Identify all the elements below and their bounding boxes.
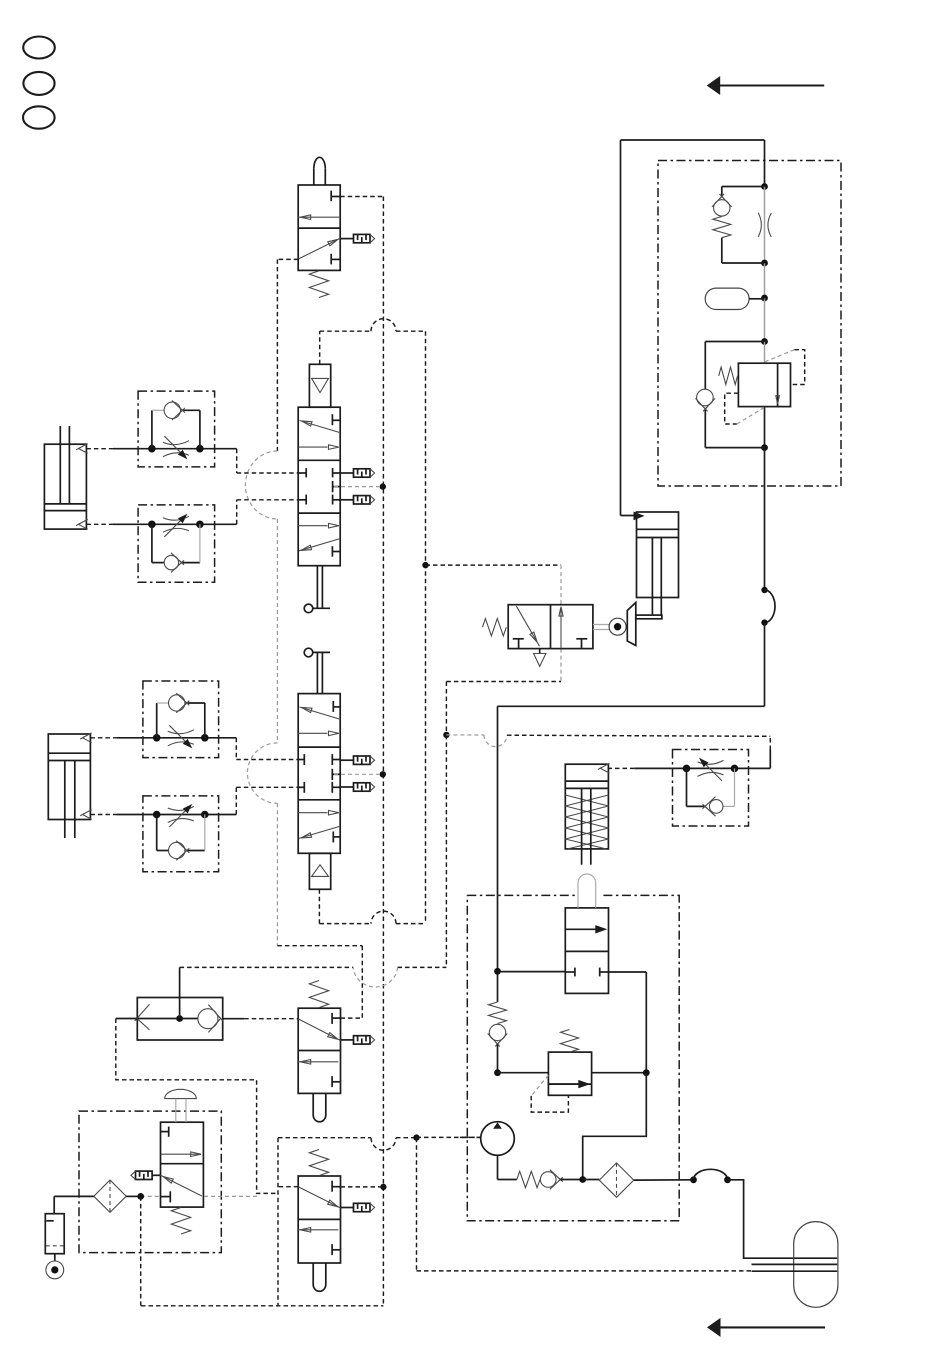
wire main x764 seg6	[764, 407, 766, 448]
valve V1 muffler	[340, 234, 374, 242]
valve V4 body	[508, 605, 593, 649]
flow control D node in	[153, 811, 161, 819]
wire regulator out	[592, 1072, 647, 1074]
wire cylA cap dashed	[86, 523, 113, 525]
wire y967 left	[180, 966, 354, 968]
shuttle valve ball	[198, 1009, 218, 1029]
flow control C line	[117, 737, 236, 739]
U2 box2 left port T 4	[298, 468, 306, 477]
wire V3b box top edge	[278, 1137, 371, 1139]
U3 box1 path B	[298, 731, 339, 736]
valve V1 return spring	[309, 271, 328, 298]
regulator V6 arrow	[548, 1080, 590, 1088]
orifice symbol	[758, 213, 771, 237]
wire V5 right	[609, 972, 647, 1073]
flow control E check seat	[703, 797, 716, 817]
wire shuttle right	[223, 1018, 245, 1020]
wire x277 upper	[276, 259, 278, 451]
valve V3b spring	[309, 1150, 328, 1176]
valve V5 body	[565, 908, 608, 994]
U2 centre port wire	[334, 486, 380, 488]
U3 box3 path B	[299, 827, 339, 839]
flow control E node out	[731, 765, 739, 773]
wire V1 port2 to net	[340, 196, 383, 198]
U2 box2 right T a	[333, 468, 341, 477]
cylinder A body	[44, 444, 86, 529]
filter F2	[94, 1180, 126, 1212]
wire y565 to roller valve	[426, 564, 562, 566]
wire y736 right	[507, 735, 770, 736]
cylinder C body	[637, 512, 679, 598]
U2 pilot triangle	[312, 378, 329, 392]
check valve K3 ball	[697, 389, 714, 406]
node V8 supply	[137, 1193, 144, 1200]
wire filter in	[583, 1179, 600, 1181]
valve V3b lower arrow	[298, 1228, 338, 1233]
wire x446 upper	[445, 682, 447, 735]
intake check seat	[550, 1170, 563, 1190]
wire main x764 seg7	[764, 448, 766, 590]
flow control A check seat	[172, 401, 185, 421]
wire V3b port2 net	[341, 1186, 384, 1188]
flow control B enclosure	[138, 505, 215, 582]
wire shuttle left net	[116, 1019, 278, 1194]
wire supply left drop	[621, 140, 638, 516]
shuttle valve line	[137, 1018, 198, 1020]
valve V8 spring	[171, 1208, 190, 1235]
node main 3	[761, 295, 768, 302]
wire V3b box left edge	[277, 1138, 279, 1306]
node bottom pilot	[413, 1134, 419, 1140]
valve V5 shutoff T right	[600, 968, 609, 977]
wire hop arc at 5/3-2 ports	[247, 743, 277, 803]
wire right drop	[583, 1073, 647, 1180]
cylinder D body	[565, 764, 608, 849]
wire filter to node	[126, 1195, 141, 1197]
U2 lever stem	[317, 566, 322, 609]
check valve K4 spring	[489, 1002, 507, 1024]
U3 pilot wire	[318, 889, 320, 923]
tank symbol	[45, 1214, 64, 1254]
drain connect	[54, 1254, 56, 1261]
wire y1137 hop	[371, 1138, 396, 1151]
valve V8 mushroom head	[165, 1089, 197, 1098]
flow control B check seat	[171, 553, 184, 573]
accumulator stub	[749, 298, 764, 300]
wire hop arc at 5/3-1 ports	[245, 451, 277, 519]
cylinder B port cap	[80, 810, 92, 820]
receiver line 2	[752, 1263, 838, 1265]
U2 box3 blocked T	[332, 546, 340, 557]
regulator V6 pilot	[531, 1075, 568, 1112]
wire y923 hop	[371, 911, 396, 924]
flow control C node in	[153, 734, 161, 742]
wire y1271 dashed	[417, 1270, 752, 1272]
wire main x764 seg3	[764, 263, 766, 298]
cylinder C port arrow	[634, 512, 645, 521]
check valve K4 ball	[489, 1024, 505, 1040]
flow control A branch	[152, 410, 200, 448]
cylinder B body	[48, 734, 90, 820]
check valve K1 spring	[713, 217, 731, 238]
node 5/3-1 centre port	[380, 483, 386, 489]
wire y736 hop	[484, 735, 507, 747]
valve V1 port 3 blocked T	[331, 254, 340, 265]
U3 lever bar	[313, 651, 330, 653]
node V3b port2	[380, 1184, 386, 1190]
wire main x764 seg1	[764, 140, 766, 187]
wire V1 port3 left	[277, 258, 298, 260]
valve V4 stem	[593, 625, 610, 630]
flow control D check circle	[169, 842, 185, 858]
filter F1	[599, 1163, 634, 1197]
connector ellipse 1	[23, 37, 55, 59]
flow control D throttle	[168, 804, 194, 827]
U3 box3 blocked T	[333, 832, 340, 843]
valve V8 diag	[161, 1175, 202, 1196]
cylinder C rod	[652, 538, 661, 616]
U3 box2 right T a	[332, 754, 340, 765]
wire filter left	[54, 1196, 94, 1213]
flow control D check seat	[176, 841, 189, 861]
flow control B throttle	[163, 514, 189, 537]
valve V4 box1 T	[513, 639, 524, 649]
node main 1	[761, 183, 768, 190]
node main 7	[761, 619, 767, 625]
wire main hop arc	[765, 590, 776, 623]
flow control B line	[113, 523, 237, 525]
wire y736 gray	[446, 734, 484, 736]
wire check to node	[497, 1044, 499, 1073]
valve V1 flow arrow upper	[298, 215, 340, 220]
U3 muffler 5	[340, 756, 374, 764]
regulator V6 body	[548, 1052, 591, 1095]
wire to filter	[560, 1179, 582, 1181]
U3 lever stem	[317, 652, 322, 693]
U2 box2 right T c	[333, 495, 341, 505]
receiver line 3	[752, 1270, 838, 1272]
5/3 valve U3 body	[298, 694, 340, 854]
valve V4 exhaust triangle	[534, 654, 546, 667]
wire to regulator	[498, 1072, 549, 1074]
flow control B node in	[148, 521, 156, 529]
flow control D branch	[157, 815, 205, 851]
wire x416 down	[416, 1138, 418, 1271]
node intake hop b	[724, 1176, 731, 1183]
wire x561 lower gray	[560, 649, 562, 682]
node intake	[579, 1176, 586, 1183]
valve V8 muffler	[131, 1171, 161, 1179]
valve V4 box1 diag	[516, 606, 539, 646]
cylinder D port	[598, 763, 610, 773]
accumulator capsule	[705, 288, 749, 309]
valve V3a lower arrow	[298, 1060, 338, 1065]
check valve K3 branch	[705, 342, 764, 448]
wire y681 bottom	[446, 681, 561, 683]
flow arrow top right	[707, 76, 825, 95]
pump triangle	[493, 1122, 502, 1129]
valve V3a port2 T	[332, 1013, 340, 1024]
U3 box1 path A	[300, 707, 340, 719]
enclosure damper unit	[658, 161, 841, 487]
valve V4 box2 T	[576, 639, 587, 649]
valve V1 body	[298, 185, 340, 270]
flow control D node out	[201, 811, 209, 819]
flow control B node out	[196, 521, 204, 529]
cylinder A port cap	[76, 519, 88, 529]
node supply c	[643, 1069, 650, 1076]
U3 box2 right T c	[332, 782, 340, 793]
node supply b	[494, 1069, 501, 1076]
flow control E enclosure	[673, 750, 749, 827]
flow control E check ball	[709, 800, 723, 814]
U3 box2 left port T2	[298, 782, 304, 793]
wire cylB cap dashed	[90, 814, 117, 816]
valve V4 roller	[609, 618, 626, 635]
U3 box2 left port T	[298, 754, 304, 765]
wire x446 lower	[445, 735, 447, 968]
U2 muffler 3	[340, 496, 374, 504]
U2 box2 left port T 2	[298, 495, 306, 505]
valve V3b body	[298, 1176, 340, 1263]
valve V3a pin	[313, 1093, 326, 1121]
U2 lever bar	[313, 607, 330, 609]
U2 box1 path B	[298, 445, 339, 450]
wire pump left line	[497, 895, 499, 1002]
valve V5 plunger	[578, 874, 596, 908]
connector ellipse 3	[23, 106, 55, 128]
valve V5 flow arrow	[565, 925, 607, 933]
U3 box2 right T b	[332, 769, 340, 780]
node main 6	[761, 587, 767, 593]
node main 4	[761, 338, 768, 345]
U3 pilot triangle	[312, 865, 329, 877]
shuttle node	[176, 1015, 183, 1022]
wire supply top	[621, 139, 765, 141]
valve V4 exhaust stub	[539, 649, 541, 654]
U2 box3 path A	[298, 523, 339, 528]
U3 muffler 3	[340, 783, 374, 791]
cylinder C piston	[637, 529, 679, 537]
flow control C check circle	[169, 695, 185, 711]
cylinder A port head	[76, 444, 88, 454]
node x425 branch	[422, 562, 428, 568]
wire y1137 to node	[396, 1137, 417, 1139]
wire y923 left	[319, 923, 371, 925]
check valve K1 branch	[722, 187, 765, 264]
regulator K2 pilot lower	[725, 393, 766, 424]
shuttle valve left seat	[135, 1004, 150, 1030]
enclosure supply unit	[467, 895, 679, 1220]
cylinder A piston	[44, 504, 86, 511]
U2 box1 path A	[300, 421, 340, 433]
receiver capsule	[794, 1222, 838, 1308]
check valve K4 seat	[488, 1034, 508, 1047]
connector ellipse 2	[23, 72, 54, 95]
wire main x764 seg4	[764, 298, 766, 342]
pump circle	[481, 1122, 515, 1156]
wire main to pump	[498, 706, 765, 895]
valve V3b diag	[298, 1187, 340, 1208]
wire x141 down	[140, 1196, 142, 1305]
valve V4 box2 flow line	[559, 607, 563, 649]
U2 muffler 5	[340, 469, 374, 477]
valve V8 upper arrow	[161, 1152, 202, 1157]
drain port	[46, 1261, 64, 1279]
flow control B branch	[152, 524, 200, 562]
valve V3a spring	[309, 981, 328, 1008]
wire x425	[425, 331, 427, 923]
wire to receiver	[728, 1180, 838, 1258]
flow control C check seat	[176, 693, 189, 713]
regulator K2 spring	[719, 367, 738, 384]
valve V1 button actuator	[314, 157, 326, 185]
U2 pilot box	[309, 364, 330, 407]
valve V3a muffler	[341, 1036, 375, 1044]
wire E riser	[769, 736, 771, 768]
U2 lever circle	[304, 604, 313, 613]
shuttle valve right seat	[208, 1005, 223, 1033]
wire intake hop	[694, 1169, 728, 1180]
wire y967 big hop	[353, 967, 397, 987]
wire V8 gray feed	[141, 1195, 258, 1197]
valve V5 shutoff T left	[565, 968, 575, 977]
wire V5 left	[498, 971, 566, 973]
flow control E branch	[687, 768, 735, 806]
U3 lever circle	[304, 648, 313, 657]
wire main x764 seg8	[764, 623, 766, 707]
valve V1 port 2 blocked T	[331, 191, 340, 202]
wire valve port2 D	[236, 787, 298, 814]
intake check ball	[540, 1172, 556, 1188]
node main 5	[761, 444, 768, 451]
U2 box3 path B	[299, 539, 339, 551]
flow control B check circle	[164, 555, 178, 569]
wire to pump pilot	[417, 1136, 481, 1138]
flow control C branch	[157, 703, 205, 738]
valve V8 port3 T	[161, 1191, 171, 1202]
wire V3a port2 stub	[341, 1017, 363, 1019]
flow control C throttle	[168, 725, 194, 748]
valve V4 spring	[482, 619, 506, 636]
wire cylA head dashed	[86, 448, 113, 450]
wire intake out	[634, 1179, 694, 1181]
U3 pilot box	[309, 853, 330, 889]
wire pump down	[498, 1155, 517, 1179]
U2 pilot wire	[319, 331, 321, 364]
node main 2	[761, 260, 768, 267]
flow control A node in	[148, 445, 156, 453]
check valve K1 ball	[714, 200, 730, 216]
node supply a	[494, 968, 501, 975]
wire valve port4 C	[236, 738, 298, 760]
pump drive shaft	[460, 1136, 481, 1138]
flow control A enclosure	[138, 391, 215, 467]
valve V3a port3 T	[332, 1076, 340, 1087]
wire shuttle out up	[179, 967, 181, 1018]
wire y331 right	[396, 330, 426, 332]
check valve K1 seat	[712, 194, 732, 207]
wire y923 right	[396, 923, 426, 925]
U3 box3 path A	[298, 810, 339, 815]
valve V8 body	[161, 1122, 204, 1207]
flow control A line	[113, 448, 237, 450]
U2 box1 blocked T	[332, 414, 340, 425]
wire y945 horizontal	[277, 945, 362, 947]
cylinder D piston	[565, 781, 608, 788]
cylinder D rod	[582, 788, 591, 864]
wire shuttle to V3a	[244, 1018, 298, 1020]
flow control E throttle	[698, 758, 724, 781]
U2 box2 right T b	[333, 481, 341, 492]
cylinder B rod	[65, 761, 75, 839]
cylinder B port head	[80, 733, 92, 743]
flow control A check circle	[164, 402, 180, 418]
flow control A throttle	[163, 436, 189, 459]
flow control E line	[634, 767, 770, 769]
flow control D enclosure	[143, 796, 219, 872]
wire y331 hop	[371, 319, 396, 332]
wire shuttle left	[116, 1018, 138, 1020]
flow control D line	[117, 814, 236, 816]
valve V3a diag	[298, 1019, 340, 1041]
valve V3a body	[298, 1008, 340, 1093]
flow control E node in	[683, 765, 691, 773]
cylinder A rod	[60, 426, 69, 504]
valve V3b pin	[313, 1263, 326, 1291]
enclosure V8	[79, 1111, 221, 1253]
wire y967 right	[398, 966, 447, 968]
5/3 valve U2 body	[298, 407, 340, 566]
cylinder C rod foot	[636, 615, 662, 619]
wire valve port2 B	[237, 500, 299, 525]
valve V1 flow path lower	[299, 238, 340, 258]
node x446 junction	[443, 732, 449, 738]
check valve K3 seat	[696, 398, 716, 411]
valve V3b muffler	[341, 1203, 375, 1211]
wire cylB head dashed	[90, 737, 117, 739]
valve V8 stem	[176, 1099, 186, 1123]
node intake hop a	[690, 1176, 697, 1183]
regulator K2 body	[738, 363, 790, 406]
flow control C node out	[201, 734, 209, 742]
flow control C enclosure	[143, 681, 219, 758]
intake spring	[517, 1171, 540, 1187]
cylinder B piston	[48, 753, 90, 760]
wire main x764 seg5	[764, 342, 766, 364]
valve V3b port3 T	[332, 1244, 340, 1255]
wire pilot net x383	[382, 197, 384, 1307]
U3 centre port wire	[334, 773, 380, 775]
regulator K2 pilot upper	[765, 350, 805, 385]
wire x362 down	[361, 946, 363, 1018]
valve V8 port T upper	[161, 1127, 169, 1137]
wire y1305 bottom	[141, 1305, 383, 1307]
U3 box1 blocked T	[333, 701, 340, 712]
flow arrow bottom right	[707, 1318, 825, 1337]
valve V4 lever plate	[627, 603, 636, 646]
valve V3b port2 T	[332, 1181, 340, 1192]
node 5/3-2 centre port	[380, 771, 386, 777]
wire cylD dashed	[608, 767, 635, 769]
wire valve port4 A	[237, 449, 299, 473]
regulator V6 spring	[561, 1030, 579, 1053]
wire y331 left	[320, 330, 371, 332]
shuttle valve body	[137, 998, 222, 1041]
wire V3b port1 left	[278, 1186, 298, 1188]
flow control A node out	[196, 445, 204, 453]
wire main x764 seg2	[764, 187, 766, 264]
